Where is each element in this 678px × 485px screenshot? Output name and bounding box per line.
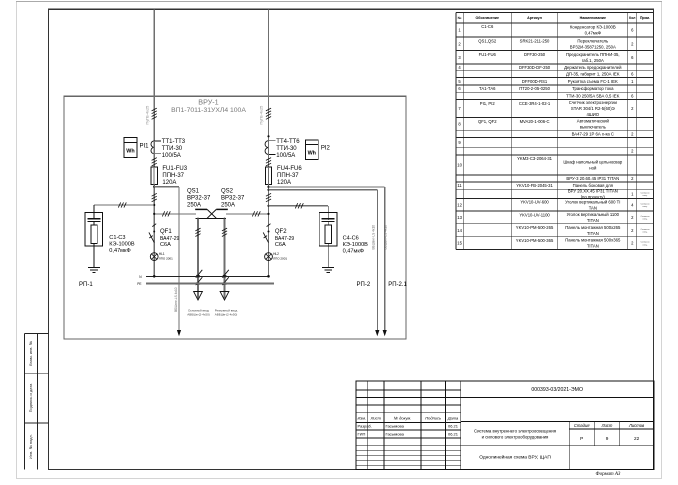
svg-text:Однолинейная схема ВРУ, ЩАП: Однолинейная схема ВРУ, ЩАП: [479, 454, 551, 461]
svg-text:13: 13: [457, 215, 462, 220]
svg-text:FU1-FU6: FU1-FU6: [479, 52, 497, 57]
svg-text:120А: 120А: [277, 180, 291, 186]
svg-text:DFF30-250: DFF30-250: [524, 52, 546, 57]
svg-text:Панель монтажная 500х365: Панель монтажная 500х365: [565, 238, 621, 243]
svg-text:Артикул: Артикул: [527, 16, 542, 20]
svg-text:HL1: HL1: [159, 252, 165, 256]
svg-text:22: 22: [634, 436, 640, 441]
svg-text:Рукоятка съема FC-1 IEK: Рукоятка съема FC-1 IEK: [568, 79, 618, 84]
svg-text:YKV10-PM-500-365: YKV10-PM-500-365: [516, 238, 554, 243]
svg-text:STAR 304/1 R2-5(60)Э: STAR 304/1 R2-5(60)Э: [571, 106, 615, 111]
svg-text:№: №: [458, 16, 462, 20]
svg-text:4ШИО: 4ШИО: [586, 112, 599, 117]
svg-text:Автоматический: Автоматический: [577, 119, 610, 124]
svg-text:ДП-35, габарит 1, 250А IEK: ДП-35, габарит 1, 250А IEK: [566, 72, 620, 77]
svg-text:спец.: спец.: [643, 206, 648, 208]
svg-text:ВР32-37: ВР32-37: [187, 195, 211, 201]
svg-text:MVA20-1-006-C: MVA20-1-006-C: [520, 119, 550, 124]
svg-text:РП-2.1: РП-2.1: [388, 282, 407, 288]
svg-text:ВБШвнг-LS 4х10: ВБШвнг-LS 4х10: [384, 225, 388, 250]
svg-text:TITAN: TITAN: [587, 218, 599, 223]
svg-text:№ докум.: № докум.: [394, 416, 412, 421]
svg-text:Лист: Лист: [601, 423, 613, 428]
svg-text:14: 14: [457, 228, 462, 233]
svg-text:ВА47-29 1Р 6А х-ка С: ВА47-29 1Р 6А х-ка С: [572, 131, 614, 136]
svg-text:Держатель предохранителей: Держатель предохранителей: [564, 65, 622, 70]
svg-text:FU4-FU6: FU4-FU6: [277, 166, 302, 172]
svg-text:06.21: 06.21: [448, 432, 459, 437]
svg-text:КЭ-1000В: КЭ-1000В: [109, 242, 135, 248]
svg-text:250А: 250А: [221, 202, 235, 208]
svg-text:Трансформатор тока: Трансформатор тока: [572, 86, 614, 91]
svg-text:PI1: PI1: [140, 143, 150, 149]
svg-text:Р: Р: [580, 436, 583, 441]
svg-text:06.21: 06.21: [448, 424, 459, 429]
svg-text:QF1, QF2: QF1, QF2: [478, 119, 497, 124]
svg-text:ТТИ-30: ТТИ-30: [162, 146, 183, 152]
svg-text:С6А: С6А: [275, 242, 286, 248]
svg-text:ПуГВ-4х25: ПуГВ-4х25: [145, 106, 149, 125]
svg-text:SRK21-211-250: SRK21-211-250: [520, 38, 550, 43]
svg-text:ПТ20-2-05-0250: ПТ20-2-05-0250: [519, 86, 550, 91]
svg-text:Лист: Лист: [370, 416, 382, 421]
svg-text:ТТ4-ТТ6: ТТ4-ТТ6: [276, 139, 300, 145]
svg-text:100/5А: 100/5А: [162, 153, 181, 159]
svg-text:0,47мкФ: 0,47мкФ: [585, 31, 601, 36]
svg-text:ТТ1-ТТ3: ТТ1-ТТ3: [162, 139, 186, 145]
svg-text:Подпись и дата: Подпись и дата: [28, 383, 33, 413]
svg-text:12: 12: [457, 202, 462, 207]
svg-text:Подпись: Подпись: [425, 416, 441, 421]
svg-text:Изм.: Изм.: [358, 416, 367, 421]
svg-text:ной: ной: [589, 166, 597, 171]
svg-text:Уголок вертикальный 1100: Уголок вертикальный 1100: [567, 212, 620, 217]
svg-text:PI2: PI2: [321, 145, 331, 151]
svg-text:С6А: С6А: [160, 242, 171, 248]
svg-text:11: 11: [457, 183, 462, 188]
svg-text:КЭ-1000В: КЭ-1000В: [343, 242, 369, 248]
svg-text:Система внутреннего электроосв: Система внутреннего электроосвещения: [474, 429, 557, 434]
svg-text:ЛПО 2001: ЛПО 2001: [159, 257, 173, 261]
svg-text:TAN: TAN: [589, 205, 597, 210]
svg-text:YKV10-UV-1100: YKV10-UV-1100: [519, 212, 550, 217]
svg-text:PE: PE: [137, 282, 141, 286]
svg-text:ТТИ-30: ТТИ-30: [276, 146, 297, 152]
svg-text:YKV10-UV-600: YKV10-UV-600: [520, 200, 549, 205]
svg-text:Wh: Wh: [308, 150, 316, 156]
svg-text:Предохранитель ППНИ-35,: Предохранитель ППНИ-35,: [566, 52, 620, 57]
svg-text:Гасымова: Гасымова: [386, 424, 405, 429]
svg-text:выключатель: выключатель: [580, 125, 607, 130]
svg-text:Гасымова: Гасымова: [386, 432, 405, 437]
svg-text:спец.: спец.: [643, 219, 648, 221]
svg-text:000393-03/2021-ЭМО: 000393-03/2021-ЭМО: [531, 387, 583, 393]
svg-text:DFF00D-RS1: DFF00D-RS1: [522, 79, 548, 84]
svg-text:Стадия: Стадия: [574, 423, 590, 428]
svg-text:ТТИ-30 250/5А 5ВА 0,5 IEK: ТТИ-30 250/5А 5ВА 0,5 IEK: [566, 94, 619, 99]
svg-text:С1-С3: С1-С3: [109, 235, 125, 241]
svg-text:QF1: QF1: [160, 229, 172, 235]
svg-text:Взам. инв. №: Взам. инв. №: [28, 341, 33, 366]
svg-text:250А: 250А: [187, 202, 201, 208]
svg-text:Wh: Wh: [126, 148, 134, 154]
svg-text:Панель монтажная 500х265: Панель монтажная 500х265: [565, 225, 621, 230]
svg-text:PI1, PI2: PI1, PI2: [480, 101, 496, 106]
svg-text:Уголок вертикальный 600 TI: Уголок вертикальный 600 TI: [565, 199, 620, 204]
svg-text:Формат А3: Формат А3: [596, 472, 621, 477]
svg-text:ЛПО 2001: ЛПО 2001: [273, 257, 287, 261]
svg-text:РП-1: РП-1: [79, 282, 93, 288]
svg-text:Кол: Кол: [629, 16, 635, 20]
svg-text:ВБШвнг-LS 4х10: ВБШвнг-LS 4х10: [174, 287, 178, 312]
svg-text:ВР32И-35871250, 250А: ВР32И-35871250, 250А: [570, 44, 616, 49]
svg-text:ВП1-7011-31УХЛ4 100А: ВП1-7011-31УХЛ4 100А: [171, 107, 246, 114]
svg-text:0,47мкФ: 0,47мкФ: [109, 248, 130, 254]
svg-text:TITAN: TITAN: [587, 244, 599, 249]
svg-text:Листов: Листов: [628, 423, 645, 428]
svg-text:FU1-FU3: FU1-FU3: [162, 166, 187, 172]
svg-text:спец.: спец.: [643, 195, 648, 197]
svg-text:QF2: QF2: [275, 229, 287, 235]
svg-text:QS1: QS1: [187, 188, 200, 194]
svg-text:Конденсатор КЭ-1000В: Конденсатор КЭ-1000В: [570, 25, 616, 30]
svg-text:Дата: Дата: [447, 416, 459, 421]
svg-text:ППН-37: ППН-37: [162, 173, 184, 179]
svg-text:Разраб.: Разраб.: [358, 424, 372, 429]
svg-text:15: 15: [457, 241, 462, 246]
svg-text:ТА1-ТА6: ТА1-ТА6: [479, 86, 496, 91]
svg-text:РП-2: РП-2: [357, 282, 371, 288]
svg-text:ВРУ-1: ВРУ-1: [198, 98, 218, 107]
svg-text:CCE-3R4-1-02-1: CCE-3R4-1-02-1: [519, 101, 551, 106]
svg-text:АВБШв-(2-4х50): АВБШв-(2-4х50): [215, 313, 237, 317]
svg-text:ВРУ-3 20.60.45 IP31 TITAN: ВРУ-3 20.60.45 IP31 TITAN: [566, 176, 619, 181]
svg-text:АВБШв-(2-4х50): АВБШв-(2-4х50): [187, 313, 209, 317]
svg-text:С4-С6: С4-С6: [343, 236, 359, 242]
svg-text:ППН-37: ППН-37: [277, 173, 299, 179]
svg-text:10: 10: [457, 163, 462, 168]
svg-text:ГИП: ГИП: [358, 432, 366, 437]
svg-text:и силового электрооборудования: и силового электрооборудования: [482, 434, 549, 439]
svg-text:9: 9: [606, 436, 609, 441]
svg-text:HL2: HL2: [273, 252, 279, 256]
svg-text:ПуГВ-4х25: ПуГВ-4х25: [260, 106, 264, 125]
svg-text:С1-С6: С1-С6: [481, 24, 494, 29]
svg-text:ВБШвнг-LS 4х10: ВБШвнг-LS 4х10: [371, 225, 375, 250]
svg-text:QS1,QS2: QS1,QS2: [478, 38, 497, 43]
svg-text:0,47мкФ: 0,47мкФ: [343, 249, 364, 255]
svg-text:Шкаф напольный цельносвар: Шкаф напольный цельносвар: [563, 160, 623, 165]
svg-text:DFF30D-DF-250: DFF30D-DF-250: [519, 65, 551, 70]
svg-text:Прим.: Прим.: [640, 16, 650, 20]
svg-text:YKM3-C3-2064-31: YKM3-C3-2064-31: [517, 156, 553, 161]
svg-text:ВРУ 20.ХХ.45 IP31 TITAN: ВРУ 20.ХХ.45 IP31 TITAN: [568, 188, 618, 193]
svg-text:YKV10-FB-2045-31: YKV10-FB-2045-31: [516, 183, 553, 188]
svg-text:Обозначение: Обозначение: [476, 16, 500, 20]
svg-text:Переключатель: Переключатель: [577, 38, 609, 43]
svg-text:спец.: спец.: [643, 231, 648, 233]
svg-text:YKV10-PM-500-265: YKV10-PM-500-265: [516, 225, 554, 230]
svg-text:Панель боковая для: Панель боковая для: [573, 183, 613, 188]
svg-text:спец.: спец.: [643, 244, 648, 246]
svg-text:TITAN: TITAN: [587, 231, 599, 236]
svg-text:QS2: QS2: [221, 188, 234, 194]
svg-text:Счетчик электроэнергии: Счетчик электроэнергии: [569, 100, 618, 105]
svg-text:100/5А: 100/5А: [276, 153, 295, 159]
svg-text:Инв. № подл.: Инв. № подл.: [28, 434, 33, 459]
svg-text:габ.1, 250А: габ.1, 250А: [582, 58, 604, 63]
svg-text:120А: 120А: [162, 180, 176, 186]
svg-text:ВР32-37: ВР32-37: [221, 195, 245, 201]
svg-text:Наименование: Наименование: [580, 16, 606, 20]
